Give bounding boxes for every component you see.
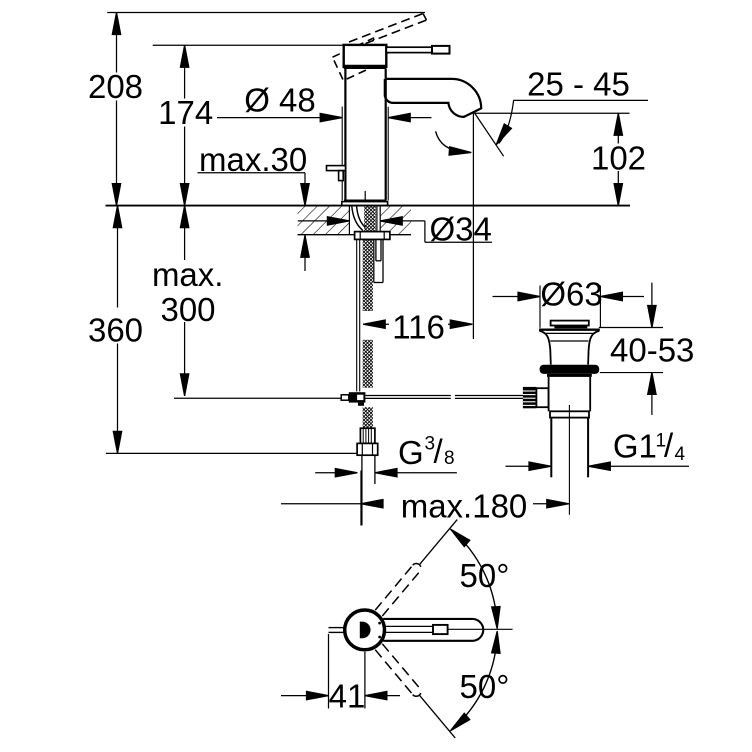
- dimension 116: [363, 309, 472, 346]
- faucet body left wall: [344, 69, 346, 200]
- dimension 41: [281, 634, 400, 715]
- plan: centerline right: [448, 628, 513, 630]
- faucet: dashed cap (raised position): [332, 38, 384, 80]
- svg-text:Ø63: Ø63: [540, 276, 602, 313]
- drain pop-up waste assembly: [539, 321, 600, 515]
- pop-up vertical rod: [356, 239, 358, 391]
- G3/8 hex nut: [357, 443, 378, 455]
- plan: upper ray 50deg: [420, 520, 458, 565]
- dimension 208: [88, 13, 143, 206]
- svg-text:41: 41: [329, 678, 366, 715]
- plan: upper 50deg arc: [452, 531, 497, 622]
- svg-text:50°: 50°: [460, 557, 510, 594]
- plan: upper dashed lever: [375, 564, 421, 616]
- svg-text:max.: max.: [152, 256, 224, 293]
- faucet cap: [344, 45, 387, 67]
- pop-up knob on body: [327, 166, 346, 171]
- plan: lower dashed lever: [375, 644, 421, 696]
- svg-text:25 - 45: 25 - 45: [527, 66, 630, 103]
- dimension 40-53: [599, 283, 695, 415]
- plan: lower ray -50deg: [420, 695, 456, 738]
- spout direction line 45deg: [474, 113, 503, 157]
- svg-text:Ø34: Ø34: [430, 211, 492, 248]
- counter hatch right: [380, 207, 411, 235]
- pop-up linkage block: [341, 395, 349, 400]
- svg-text:116: 116: [392, 309, 445, 346]
- svg-text:102: 102: [591, 139, 646, 176]
- horizontal pop-up rod: [365, 396, 523, 399]
- counter hole walls: [348, 207, 350, 235]
- waste body: [548, 377, 550, 411]
- plan: dots: [378, 622, 381, 625]
- dimension max.300: [152, 206, 348, 399]
- faucet lever tip: [432, 46, 450, 54]
- rod in hole: [376, 207, 378, 232]
- faucet internal pull rod: [364, 191, 366, 200]
- plan: body circle: [345, 610, 385, 650]
- dimension 25 - 45 (spout range): [493, 66, 648, 148]
- faucet body right wall: [385, 69, 387, 200]
- faucet body bottom: [344, 200, 387, 202]
- faucet cap joint (thick): [344, 65, 387, 69]
- svg-text:G1: G1: [613, 428, 657, 465]
- svg-text:max.180: max.180: [401, 488, 528, 525]
- collar: [550, 411, 589, 417]
- svg-text:/: /: [664, 427, 674, 464]
- countertop line: [106, 205, 631, 207]
- dimension 360: [88, 206, 357, 454]
- rod knurled connector: [523, 387, 537, 408]
- dimension diameter 34: [298, 211, 492, 248]
- water stream reference line: [472, 113, 474, 339]
- braided supply hose segments: [363, 239, 373, 311]
- dimension diameter 63: [493, 276, 645, 328]
- mounting washer: [355, 232, 390, 240]
- svg-text:/: /: [434, 433, 444, 470]
- label G 3/8: [315, 433, 457, 477]
- svg-text:300: 300: [160, 291, 215, 328]
- svg-text:174: 174: [158, 94, 213, 131]
- svg-text:50°: 50°: [460, 668, 510, 705]
- dimension 174: [158, 45, 213, 205]
- flange top: [539, 329, 600, 331]
- braided hose in counter hole: [364, 207, 376, 232]
- rubber seal (black): [540, 365, 600, 374]
- plug cap: [551, 321, 589, 326]
- plan: handle slot: [384, 625, 433, 627]
- faucet spout: [385, 79, 481, 117]
- plan: handle outline: [383, 619, 483, 641]
- dimension max.180: [281, 471, 569, 526]
- faucet base flange: [342, 202, 388, 206]
- counter hatch left: [298, 207, 350, 235]
- svg-text:Ø 48: Ø 48: [244, 82, 316, 119]
- dimension max.30 (counter thickness): [198, 141, 310, 271]
- faucet: dashed lever (raised position): [349, 14, 427, 49]
- flange sides: [539, 331, 550, 365]
- faucet lever bar: [386, 47, 432, 52]
- swivel arc under spout: [436, 131, 466, 152]
- G3/8 pipe: [361, 455, 363, 525]
- drain centerline: [568, 405, 570, 515]
- svg-text:G: G: [398, 434, 424, 471]
- svg-text:40-53: 40-53: [610, 332, 694, 369]
- plan: lower 50deg arc: [452, 638, 497, 729]
- extension line at cap top (174 ref): [153, 44, 344, 46]
- dimension diameter 48: [217, 82, 432, 201]
- extension line top (overall height ref): [107, 12, 425, 14]
- label G1 1/4: [506, 427, 690, 471]
- tailpipe: [550, 418, 552, 478]
- counter underside: [298, 234, 412, 236]
- plan: spout tab left: [329, 627, 345, 629]
- hose curves in hole: [352, 207, 363, 231]
- second hose stub: [374, 239, 383, 282]
- svg-text:208: 208: [88, 68, 143, 105]
- G3/8 hose nut (knurled): [360, 428, 375, 443]
- dimension 102: [475, 113, 646, 205]
- svg-text:360: 360: [88, 312, 143, 349]
- svg-text:4: 4: [675, 444, 686, 465]
- plan: keyhole mark: [360, 622, 371, 639]
- svg-text:8: 8: [444, 448, 455, 469]
